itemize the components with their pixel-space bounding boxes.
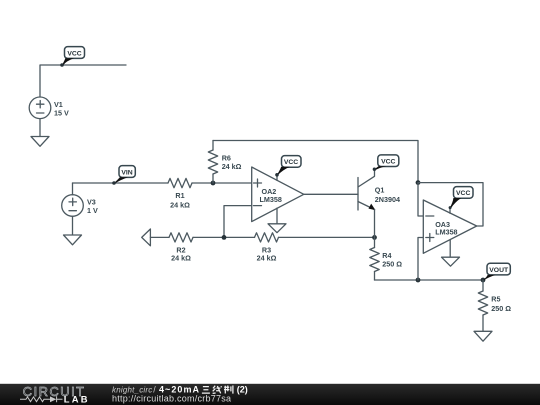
- svg-text:VCC: VCC: [67, 50, 81, 57]
- op-amp OA2 V+ pin stub: [276, 175, 278, 181]
- ground (V1): [31, 137, 49, 147]
- footer bar: [0, 384, 540, 405]
- wire top rail R6 to right column: [213, 141, 418, 183]
- wire R3 to emitter node: [279, 236, 375, 238]
- svg-text:VIN: VIN: [121, 169, 132, 176]
- net flag VCC (OA2): [275, 156, 301, 177]
- net flag VCC (Q1 collector): [373, 155, 399, 171]
- svg-text:VCC: VCC: [456, 190, 470, 197]
- svg-text:250 Ω: 250 Ω: [382, 260, 402, 269]
- resistor R6: [208, 141, 241, 184]
- svg-text:24 kΩ: 24 kΩ: [257, 254, 277, 263]
- svg-text:R5: R5: [491, 295, 500, 304]
- ground (OA3 V-): [442, 257, 460, 266]
- wire VCC rail top-left: [40, 65, 126, 97]
- wire Q1 emitter down: [374, 210, 376, 238]
- node junction VOUT/R5: [481, 278, 486, 283]
- wire OA2 out to Q1 base: [304, 193, 358, 195]
- resistor R4: [370, 237, 402, 280]
- node junction emitter/R4: [372, 235, 377, 240]
- svg-text:LM358: LM358: [260, 195, 282, 204]
- ground (left of R2): [142, 229, 151, 246]
- ground (R5): [474, 331, 492, 341]
- svg-text:http://circuitlab.com/crb77sa: http://circuitlab.com/crb77sa: [112, 393, 231, 403]
- logo resistor-diode-LAB: [20, 394, 90, 405]
- svg-text:15 V: 15 V: [54, 109, 69, 118]
- op-amp OA2: [252, 167, 304, 222]
- svg-text:2N3904: 2N3904: [375, 195, 400, 204]
- svg-text:1 V: 1 V: [87, 206, 98, 215]
- svg-text:VCC: VCC: [284, 159, 298, 166]
- svg-text:LM358: LM358: [435, 227, 457, 236]
- wire OA3 +in: [418, 238, 423, 281]
- wire V3 to ground: [72, 216, 74, 235]
- net flag VOUT: [483, 263, 511, 280]
- svg-text:LAB: LAB: [64, 394, 90, 405]
- svg-text:R6: R6: [222, 153, 231, 162]
- svg-text:24 kΩ: 24 kΩ: [170, 201, 190, 210]
- resistor R5: [478, 280, 511, 331]
- svg-text:24 kΩ: 24 kΩ: [171, 254, 191, 263]
- svg-text:Q1: Q1: [375, 185, 385, 194]
- op-amp OA2 V- pin stub: [276, 208, 278, 223]
- svg-text:250 Ω: 250 Ω: [491, 304, 511, 313]
- op-amp OA3 V+ pin stub: [449, 207, 451, 213]
- net flag VCC (OA3): [449, 187, 473, 210]
- net flag VCC (top-left): [60, 47, 84, 67]
- node junction feedback: [222, 235, 227, 240]
- ground (V3): [64, 235, 82, 245]
- resistor R2: [169, 233, 193, 263]
- transistor Q1: [358, 169, 400, 210]
- wire ground to R2: [150, 236, 169, 238]
- svg-text:VCC: VCC: [381, 159, 395, 166]
- resistor R3: [255, 233, 279, 263]
- net flag VIN: [112, 166, 135, 185]
- op-amp OA3 V- pin stub: [449, 240, 451, 257]
- node junction OA3 +in column: [416, 278, 421, 283]
- voltage source V1: [29, 97, 69, 119]
- node junction OA3 -in / feedback: [416, 180, 421, 185]
- node junction R1/R6/+in: [211, 181, 216, 186]
- wire R2 to R3: [193, 236, 255, 238]
- wire V3 top to input row: [72, 183, 74, 195]
- wire V1 to ground: [39, 119, 41, 137]
- wire OA2 -in to feedback node: [224, 206, 252, 238]
- wire R1 to OA2 +in with junction: [192, 182, 252, 184]
- svg-text:VOUT: VOUT: [489, 267, 509, 274]
- op-amp OA3: [423, 200, 476, 253]
- svg-text:24 kΩ: 24 kΩ: [222, 162, 242, 171]
- wire VOUT row: [375, 279, 484, 281]
- voltage source V3: [62, 195, 98, 217]
- logo CIRCUIT: [23, 384, 86, 399]
- CJK 三线制 drawn as strokes: [202, 386, 233, 394]
- ground (OA2 V-): [268, 224, 286, 233]
- wire OA3 -in: [418, 183, 423, 216]
- svg-text:R1: R1: [175, 191, 184, 200]
- wire OA3 feedback loop: [418, 183, 483, 226]
- resistor R1: [168, 178, 192, 209]
- svg-text:(2): (2): [237, 385, 248, 395]
- wire input row V3 to R1: [73, 182, 169, 184]
- footer title text: [112, 385, 248, 404]
